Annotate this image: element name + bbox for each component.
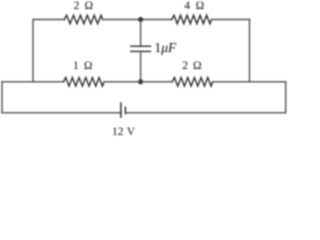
capacitor C1 top plate	[131, 45, 151, 47]
wire right branch vertical	[249, 20, 251, 82]
wire middle-right horizontal	[213, 81, 286, 83]
capacitor C1 top lead wire	[140, 20, 142, 47]
wire top-left horizontal	[33, 19, 64, 21]
resistor R4 2-ohm middle-right	[172, 78, 213, 87]
wire top-middle horizontal	[103, 19, 172, 21]
wire left branch vertical	[32, 20, 34, 82]
wire bottom-left horizontal	[2, 112, 121, 114]
node A junction dot top	[138, 17, 143, 22]
svg-text:1 Ω: 1 Ω	[73, 60, 92, 72]
capacitor C1 bottom plate	[131, 50, 151, 52]
resistor R3 1-ohm middle-left	[64, 78, 105, 87]
wire top-right horizontal	[212, 19, 250, 21]
svg-text:1μF: 1μF	[154, 40, 177, 55]
wire middle-left horizontal	[2, 81, 64, 83]
battery V1 short plate	[124, 107, 126, 113]
battery V1 long plate	[120, 103, 122, 117]
wire outer-left vertical	[1, 82, 3, 113]
wire outer-right vertical	[285, 82, 287, 113]
capacitor C1 bottom lead wire	[140, 51, 142, 81]
wire middle-center horizontal	[104, 81, 172, 83]
svg-text:2 Ω: 2 Ω	[182, 60, 201, 72]
node B junction dot bottom	[138, 79, 143, 84]
svg-text:4 Ω: 4 Ω	[184, 0, 204, 12]
resistor R1 2-ohm top-left	[64, 15, 102, 24]
svg-text:2 Ω: 2 Ω	[74, 0, 93, 12]
wire bottom-right horizontal	[125, 112, 285, 114]
resistor R2 4-ohm top-right	[172, 15, 212, 24]
svg-text:12 V: 12 V	[112, 126, 136, 136]
